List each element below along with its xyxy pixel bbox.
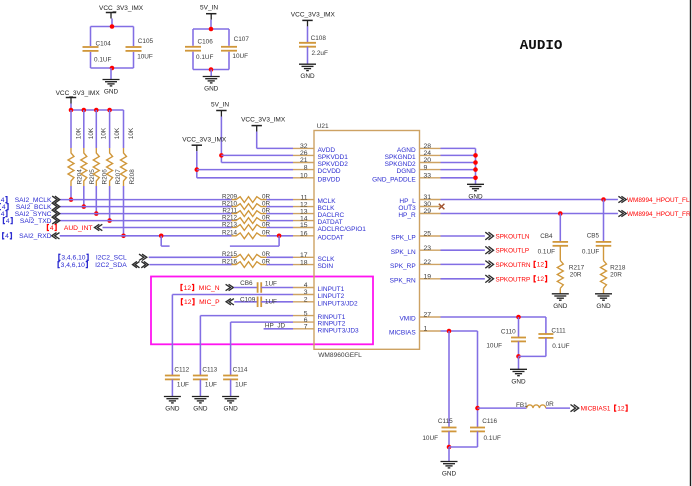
svg-text:SPK_LN: SPK_LN — [391, 249, 416, 256]
svg-text:10K: 10K — [101, 127, 108, 139]
svg-text:C116: C116 — [482, 418, 497, 425]
svg-text:BCLK: BCLK — [318, 205, 336, 212]
svg-text:3,4,6,10: 3,4,6,10 — [61, 262, 85, 269]
svg-text:25: 25 — [424, 231, 432, 238]
svg-text:DACLRC: DACLRC — [318, 212, 345, 219]
svg-text:5V_IN: 5V_IN — [211, 101, 229, 108]
svg-text:VCC_3V3_IMX: VCC_3V3_IMX — [241, 116, 286, 123]
svg-text:1UF: 1UF — [177, 382, 189, 389]
svg-text:1: 1 — [424, 326, 428, 333]
svg-text:R211: R211 — [222, 207, 237, 214]
svg-text:0.1UF: 0.1UF — [94, 56, 111, 63]
svg-text:4: 4 — [2, 204, 6, 211]
svg-text:R214: R214 — [222, 230, 238, 237]
svg-text:0R: 0R — [262, 221, 271, 228]
svg-text:R209: R209 — [222, 193, 238, 200]
svg-text:20: 20 — [424, 157, 432, 164]
svg-text:MCLK: MCLK — [318, 198, 337, 205]
svg-text:GND: GND — [596, 303, 611, 310]
svg-text:0.1UF: 0.1UF — [538, 248, 555, 255]
svg-text:4: 4 — [50, 225, 54, 232]
svg-text:AUDIO: AUDIO — [520, 38, 563, 54]
svg-text:GND: GND — [300, 73, 315, 80]
svg-text:0.1UF: 0.1UF — [552, 343, 569, 350]
svg-text:R218: R218 — [610, 264, 626, 271]
svg-text:DGND: DGND — [397, 168, 416, 175]
svg-text:C114: C114 — [233, 366, 248, 373]
svg-text:R213: R213 — [222, 221, 238, 228]
svg-text:23: 23 — [424, 245, 432, 252]
svg-text:2.2uF: 2.2uF — [312, 50, 328, 57]
svg-text:16: 16 — [300, 231, 308, 238]
svg-text:C111: C111 — [551, 328, 566, 335]
svg-text:VCC_3V3_IMX: VCC_3V3_IMX — [182, 137, 227, 144]
svg-text:12: 12 — [537, 276, 545, 283]
svg-text:C107: C107 — [234, 36, 250, 43]
svg-text:22: 22 — [424, 259, 432, 266]
svg-text:ADCDAT: ADCDAT — [318, 234, 344, 241]
svg-text:SAI2_BCLK: SAI2_BCLK — [16, 204, 52, 211]
svg-text:SCLK: SCLK — [318, 256, 336, 263]
svg-text:19: 19 — [424, 274, 432, 281]
svg-text:12: 12 — [537, 262, 545, 269]
svg-text:27: 27 — [424, 312, 432, 319]
svg-text:12: 12 — [617, 405, 625, 412]
svg-text:26: 26 — [300, 150, 308, 157]
svg-text:10K: 10K — [88, 127, 95, 139]
svg-text:18: 18 — [300, 259, 308, 266]
svg-text:SPKVDD1: SPKVDD1 — [318, 154, 349, 161]
svg-text:10UF: 10UF — [486, 343, 502, 350]
svg-text:MICBIAS1: MICBIAS1 — [581, 406, 611, 413]
svg-text:29: 29 — [424, 208, 432, 215]
svg-text:GND: GND — [553, 303, 568, 310]
svg-text:11: 11 — [300, 194, 307, 201]
svg-text:CB4: CB4 — [540, 233, 553, 240]
svg-text:0.1UF: 0.1UF — [582, 248, 599, 255]
svg-text:AVDD: AVDD — [318, 147, 336, 154]
svg-text:GND: GND — [223, 406, 238, 413]
svg-text:7: 7 — [304, 324, 308, 331]
svg-text:10K: 10K — [114, 127, 121, 139]
svg-text:VMID: VMID — [399, 316, 416, 323]
svg-text:SPKVDD2: SPKVDD2 — [318, 161, 349, 168]
svg-text:CB6: CB6 — [240, 280, 253, 287]
svg-text:SPK_RN: SPK_RN — [390, 277, 416, 284]
svg-text:4: 4 — [6, 218, 10, 225]
svg-text:R206: R206 — [102, 169, 109, 185]
svg-text:9: 9 — [424, 164, 428, 171]
svg-text:13: 13 — [300, 208, 308, 215]
svg-text:GND: GND — [511, 378, 526, 385]
svg-text:SPK_LP: SPK_LP — [391, 235, 416, 242]
svg-text:20R: 20R — [610, 272, 622, 279]
svg-text:LINPUT3/JD2: LINPUT3/JD2 — [318, 300, 358, 307]
svg-text:0R: 0R — [546, 401, 555, 408]
svg-text:28: 28 — [424, 143, 432, 150]
svg-text:GND: GND — [104, 89, 119, 96]
svg-text:17: 17 — [300, 252, 308, 259]
svg-text:4: 4 — [304, 282, 308, 289]
svg-text:C104: C104 — [96, 40, 112, 47]
svg-text:SAI2_RXD: SAI2_RXD — [19, 233, 52, 240]
svg-text:33: 33 — [424, 173, 432, 180]
svg-text:R217: R217 — [569, 264, 585, 271]
svg-text:3,4,6,10: 3,4,6,10 — [61, 255, 85, 262]
svg-text:HP_L: HP_L — [399, 198, 416, 205]
svg-text:SPKOUTLP: SPKOUTLP — [496, 248, 530, 255]
svg-text:CB5: CB5 — [587, 233, 600, 240]
svg-text:DCVDD: DCVDD — [318, 168, 341, 175]
svg-text:0R: 0R — [262, 207, 271, 214]
svg-text:I2C2_SCL: I2C2_SCL — [96, 255, 127, 262]
svg-text:32: 32 — [300, 143, 308, 150]
svg-text:GND: GND — [204, 86, 219, 93]
svg-text:C105: C105 — [138, 38, 154, 45]
svg-text:15: 15 — [300, 222, 308, 229]
svg-text:1UF: 1UF — [235, 382, 247, 389]
svg-text:R210: R210 — [222, 200, 238, 207]
svg-text:24: 24 — [424, 150, 432, 157]
svg-text:LINPUT2: LINPUT2 — [318, 293, 345, 300]
svg-text:R204: R204 — [76, 169, 83, 185]
svg-text:C115: C115 — [438, 418, 453, 425]
svg-text:3: 3 — [304, 289, 308, 296]
svg-text:SAI2_MCLK: SAI2_MCLK — [15, 197, 52, 204]
svg-text:R216: R216 — [222, 258, 238, 265]
svg-text:GND: GND — [193, 406, 208, 413]
svg-text:SPKOUTLN: SPKOUTLN — [496, 234, 530, 241]
svg-text:C110: C110 — [501, 328, 516, 335]
svg-text:MICBIAS: MICBIAS — [389, 330, 416, 337]
svg-text:5V_IN: 5V_IN — [200, 5, 218, 12]
svg-text:12: 12 — [184, 299, 192, 306]
svg-text:12: 12 — [184, 285, 192, 292]
svg-text:AUD_INT: AUD_INT — [64, 225, 93, 232]
svg-text:0R: 0R — [262, 258, 271, 265]
svg-text:SPKOUTRN: SPKOUTRN — [496, 262, 531, 269]
svg-text:10: 10 — [300, 173, 308, 180]
svg-text:4: 4 — [1, 211, 5, 218]
svg-text:AGND: AGND — [397, 147, 416, 154]
svg-text:20R: 20R — [570, 272, 582, 279]
svg-text:DBVDD: DBVDD — [318, 176, 341, 183]
svg-text:HP_R: HP_R — [398, 212, 416, 219]
svg-text:2: 2 — [304, 297, 308, 304]
svg-text:C113: C113 — [202, 366, 217, 373]
svg-text:SAI2_TXD: SAI2_TXD — [20, 218, 52, 225]
svg-text:10UF: 10UF — [137, 54, 153, 61]
svg-text:WM8994_HPOUT_FR: WM8994_HPOUT_FR — [627, 211, 691, 218]
svg-text:FB1: FB1 — [516, 402, 528, 409]
svg-text:SPKOUTRP: SPKOUTRP — [496, 276, 531, 283]
svg-text:0.1UF: 0.1UF — [484, 435, 501, 442]
svg-text:R205: R205 — [89, 169, 96, 185]
svg-text:10UF: 10UF — [422, 435, 438, 442]
svg-text:GND: GND — [165, 406, 180, 413]
svg-text:1UF: 1UF — [265, 298, 277, 305]
svg-text:R215: R215 — [222, 251, 238, 258]
svg-text:SPKGND1: SPKGND1 — [385, 154, 416, 161]
svg-text:MIC_N: MIC_N — [199, 285, 220, 292]
svg-text:4: 4 — [1, 197, 5, 204]
svg-text:1UF: 1UF — [265, 281, 277, 288]
svg-text:30: 30 — [424, 201, 432, 208]
svg-text:GND: GND — [442, 471, 457, 478]
svg-text:31: 31 — [424, 194, 432, 201]
svg-text:0R: 0R — [262, 193, 271, 200]
svg-text:0R: 0R — [262, 251, 271, 258]
svg-text:0R: 0R — [262, 230, 271, 237]
svg-text:12: 12 — [300, 201, 308, 208]
svg-text:C112: C112 — [174, 366, 189, 373]
svg-text:RINPUT3/JD3: RINPUT3/JD3 — [318, 327, 360, 334]
svg-text:10UF: 10UF — [232, 53, 248, 60]
svg-text:WM8960GEFL: WM8960GEFL — [318, 352, 362, 359]
svg-text:WM8994_HPOUT_FL: WM8994_HPOUT_FL — [627, 197, 690, 204]
svg-text:ADCLRC/GPIO1: ADCLRC/GPIO1 — [318, 226, 367, 233]
svg-text:GND_PADDLE: GND_PADDLE — [372, 176, 416, 183]
svg-text:R207: R207 — [115, 169, 122, 185]
svg-text:SDIN: SDIN — [318, 263, 334, 270]
svg-text:C109: C109 — [240, 296, 256, 303]
svg-text:SPK_RP: SPK_RP — [390, 263, 416, 270]
svg-text:0R: 0R — [262, 200, 271, 207]
svg-text:10K: 10K — [128, 127, 135, 139]
svg-text:OUT3: OUT3 — [398, 205, 416, 212]
svg-text:VCC_3V3_IMX: VCC_3V3_IMX — [291, 12, 336, 19]
svg-text:VCC_3V3_IMX: VCC_3V3_IMX — [99, 5, 144, 12]
svg-text:4: 4 — [5, 233, 9, 240]
svg-text:SAI2_SYNC: SAI2_SYNC — [15, 211, 52, 218]
svg-text:SPKGND2: SPKGND2 — [385, 161, 416, 168]
svg-text:I2C2_SDA: I2C2_SDA — [95, 262, 127, 269]
svg-text:8: 8 — [304, 164, 308, 171]
svg-text:R208: R208 — [129, 169, 136, 185]
svg-text:VCC_3V3_IMX: VCC_3V3_IMX — [56, 90, 101, 97]
svg-text:10K: 10K — [75, 127, 82, 139]
svg-text:C108: C108 — [311, 35, 327, 42]
svg-text:1UF: 1UF — [205, 382, 217, 389]
svg-text:C106: C106 — [198, 39, 214, 46]
svg-text:21: 21 — [300, 157, 308, 164]
svg-text:U21: U21 — [317, 123, 329, 130]
svg-text:MIC_P: MIC_P — [199, 299, 220, 306]
svg-text:0.1UF: 0.1UF — [196, 54, 213, 61]
svg-text:LINPUT1: LINPUT1 — [318, 286, 345, 293]
